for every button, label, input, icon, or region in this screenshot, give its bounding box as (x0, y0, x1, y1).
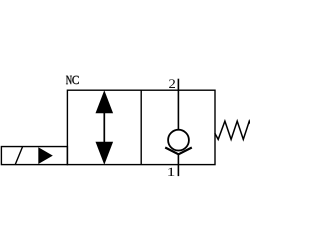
label NC letter C (72, 76, 78, 84)
valve body envelope (two-position box) (67, 90, 215, 164)
label port 1 (168, 168, 174, 176)
check valve seat (165, 148, 192, 155)
arrowhead down (96, 142, 114, 165)
solenoid diagonal stroke (15, 147, 22, 165)
solenoid actuation arrow (solid triangle) (38, 147, 53, 164)
port 1 line (177, 154, 179, 176)
position divider line (140, 90, 142, 164)
port 2 line (177, 79, 179, 130)
solenoid box (1, 147, 67, 165)
spring (215, 121, 252, 139)
arrowhead up (96, 90, 114, 113)
flow-path double arrow shaft (left position) (103, 110, 105, 144)
check valve ball (168, 130, 189, 151)
label NC letter N (66, 76, 72, 84)
label port 2 (169, 79, 175, 88)
